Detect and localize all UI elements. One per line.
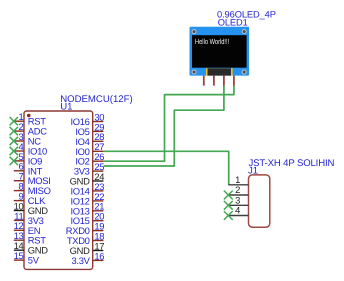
pin 21 (IO13) of U1, right side [70,201,104,217]
pin 11 (3V3) of U1, left side [14,210,44,226]
IC U1 NODEMCU(12F) body outline [24,111,93,269]
svg-text:3.3V: 3.3V [72,255,91,266]
svg-text:JST-XH 4P SOLIHIN: JST-XH 4P SOLIHIN [249,158,335,169]
pin 30 (IO16) of U1, right side [70,111,104,127]
pin 17 (GND) of U1, right side [70,240,105,256]
pin 16 (3.3V) of U1, right side [72,250,105,266]
pin 9 (CLK) of U1, left side [14,191,46,207]
wire net IO0: U1 pin 27 to J1 pin 1 [103,151,228,185]
no-connect X mark on U1 pin 4 [10,147,18,155]
pin 23 (IO14) of U1, right side [70,181,104,197]
connector J1 body [249,175,270,227]
svg-text:OLED1: OLED1 [218,17,248,27]
OLED1 pin header connector [206,68,233,75]
OLED1 module board [190,27,250,76]
pin 20 (IO15) of U1, right side [70,211,104,227]
pin 26 (IO2) of U1, right side [75,151,104,167]
pin 29 (IO5) of U1, right side [75,121,104,137]
pin 1 (RST) of U1, left side [14,111,46,127]
OLED1 mounting hole bottom-left [192,70,196,74]
OLED1 pin 2 lead [213,76,215,86]
no-connect X mark on U1 pin 2 [10,127,18,135]
OLED1 screen [192,35,247,67]
OLED1 mounting hole top-left [192,30,196,34]
no-connect X mark on J1 pin 2 [224,191,233,200]
pin 10 (GND) of U1, left side [14,200,49,216]
pin 22 (IO12) of U1, right side [70,191,104,207]
svg-text:U1: U1 [60,102,72,113]
pin 15 (5V) of U1, left side [14,250,40,266]
svg-text:16: 16 [94,250,104,261]
no-connect X mark on U1 pin 1 [10,117,18,125]
OLED1 pin 3 lead [223,76,225,86]
pin 14 (GND) of U1, left side [14,240,49,256]
no-connect X mark on J1 pin 4 [224,211,233,220]
no-connect X mark on U1 pin 3 [10,137,18,145]
pin 3 (NC) of U1, left side [14,131,41,147]
svg-text:5V: 5V [28,255,40,266]
pin 28 (IO4) of U1, right side [75,131,104,147]
pin 25 (3V3) of U1, right side [74,161,104,177]
wire net 3V3: near U1 pin 25 to OLED1 pin 3 [104,85,224,166]
wire net IO2: U1 pin 26 to OLED1 pin 4 [103,85,234,161]
OLED1 mounting hole bottom-right [242,70,246,74]
pin 24 (GND) of U1, right side [70,171,105,187]
pin 6 (INT) of U1, left side [14,161,43,177]
no-connect X mark on J1 pin 3 [224,201,233,210]
pin 3 of J1 [228,195,248,206]
OLED1 pin 1 lead [203,76,205,86]
pin 2 (ADC) of U1, left side [14,121,47,137]
svg-text:15: 15 [14,250,24,261]
pin 4 of J1 [228,205,248,216]
pin 5 (IO9) of U1, left side [14,151,42,167]
svg-text:Hello World!!!: Hello World!!! [195,37,229,46]
pin 8 (MISO) of U1, left side [14,181,51,197]
pin 7 (MOSI) of U1, left side [14,171,51,187]
pin 4 (IO10) of U1, left side [14,141,47,157]
pin 2 of J1 [228,184,248,195]
pin 19 (RXD0) of U1, right side [66,221,105,237]
pin 27 (IO0) of U1, right side [75,141,104,157]
pin 18 (TXD0) of U1, right side [67,230,104,246]
pin 1 of J1 [228,174,248,185]
pin 12 (EN) of U1, left side [14,220,41,236]
pin 13 (RST) of U1, left side [14,230,47,246]
no-connect X mark on U1 pin 5 [10,157,18,165]
svg-text:4: 4 [235,205,240,216]
OLED1 pin 4 lead [233,76,235,86]
OLED1 mounting hole top-right [242,30,246,34]
